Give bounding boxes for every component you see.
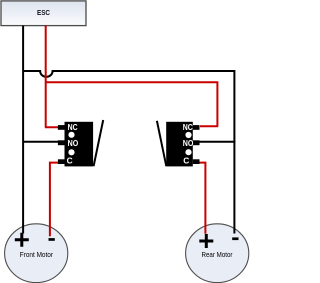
switch S1 dot 2 <box>68 149 74 155</box>
switch S2 terminal C <box>193 159 200 164</box>
wire: black top horizontal with hop over red, then right rail down to rear motor - <box>23 71 234 234</box>
switch S1 (left, front motor) <box>58 120 103 166</box>
front motor - terminal <box>49 238 55 241</box>
svg-text:NC: NC <box>68 122 78 132</box>
switch S2 lever <box>157 121 166 166</box>
front motor circle <box>5 224 68 283</box>
svg-text:C: C <box>67 156 73 166</box>
wire: black left switch NO to left rail <box>23 141 58 143</box>
wire: black left rail from ESC to front motor + <box>22 26 24 234</box>
rear motor - terminal <box>232 237 238 240</box>
svg-text:ESC: ESC <box>37 8 51 17</box>
switch S1 terminal C <box>58 159 65 164</box>
switch S2 (right, rear motor) <box>157 121 200 167</box>
svg-text:NO: NO <box>68 138 79 148</box>
rear motor M2 <box>199 234 238 259</box>
wire: black right switch NO to right rail <box>199 141 235 143</box>
switch S2 dot 1 <box>185 132 191 138</box>
ESC box <box>1 1 86 26</box>
rear motor circle <box>186 224 249 283</box>
switch S1 terminal NC <box>58 125 65 130</box>
wire: red branch to right switch NC <box>46 82 219 126</box>
switch S2 dot 2 <box>185 149 191 155</box>
svg-text:NO: NO <box>183 138 194 148</box>
wire: red from ESC down to left switch NC <box>45 26 59 128</box>
switch S2 terminal NC <box>193 125 200 130</box>
switch S1 lever <box>94 120 104 166</box>
svg-text:Rear Motor: Rear Motor <box>202 250 234 259</box>
switch S1 dot 1 <box>68 132 74 138</box>
front motor M1 <box>15 233 55 259</box>
switch S1 body <box>65 122 94 167</box>
front motor + terminal <box>15 233 29 247</box>
wire: red right switch C to rear motor + <box>199 163 205 234</box>
svg-text:C: C <box>183 156 189 166</box>
switch S1 terminal NO <box>58 140 65 145</box>
rear motor + terminal <box>199 234 213 248</box>
svg-text:NC: NC <box>183 122 193 132</box>
switch S2 body <box>166 122 193 167</box>
switch S2 terminal NO <box>193 140 200 145</box>
svg-text:Front Motor: Front Motor <box>20 250 54 259</box>
wire: red left switch C to front motor - <box>50 163 59 237</box>
